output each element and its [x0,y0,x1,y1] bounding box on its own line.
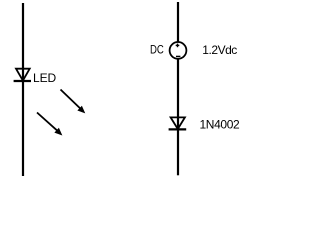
LED D1 cathode bar [14,80,31,82]
DC source minus mark [176,55,180,57]
diode D2 cathode bar [169,128,187,130]
wire: right branch middle [177,59,179,129]
wire: left branch vertical [22,3,24,176]
DC source plus mark [176,44,180,48]
svg-text:1.2Vdc: 1.2Vdc [202,43,237,57]
wire: right branch top [177,2,179,42]
diode D2 1N4002 triangle (anode) [171,117,185,129]
LED D1 triangle (anode) [16,69,30,81]
LED light-emission arrow (lower) [37,113,62,136]
DC source V1 circle [170,42,187,59]
svg-text:DC: DC [150,42,164,56]
wire: right branch bottom [177,129,179,175]
LED light-emission arrow (upper) [61,90,85,113]
svg-text:1N4002: 1N4002 [200,118,241,132]
svg-text:LED: LED [33,71,57,85]
